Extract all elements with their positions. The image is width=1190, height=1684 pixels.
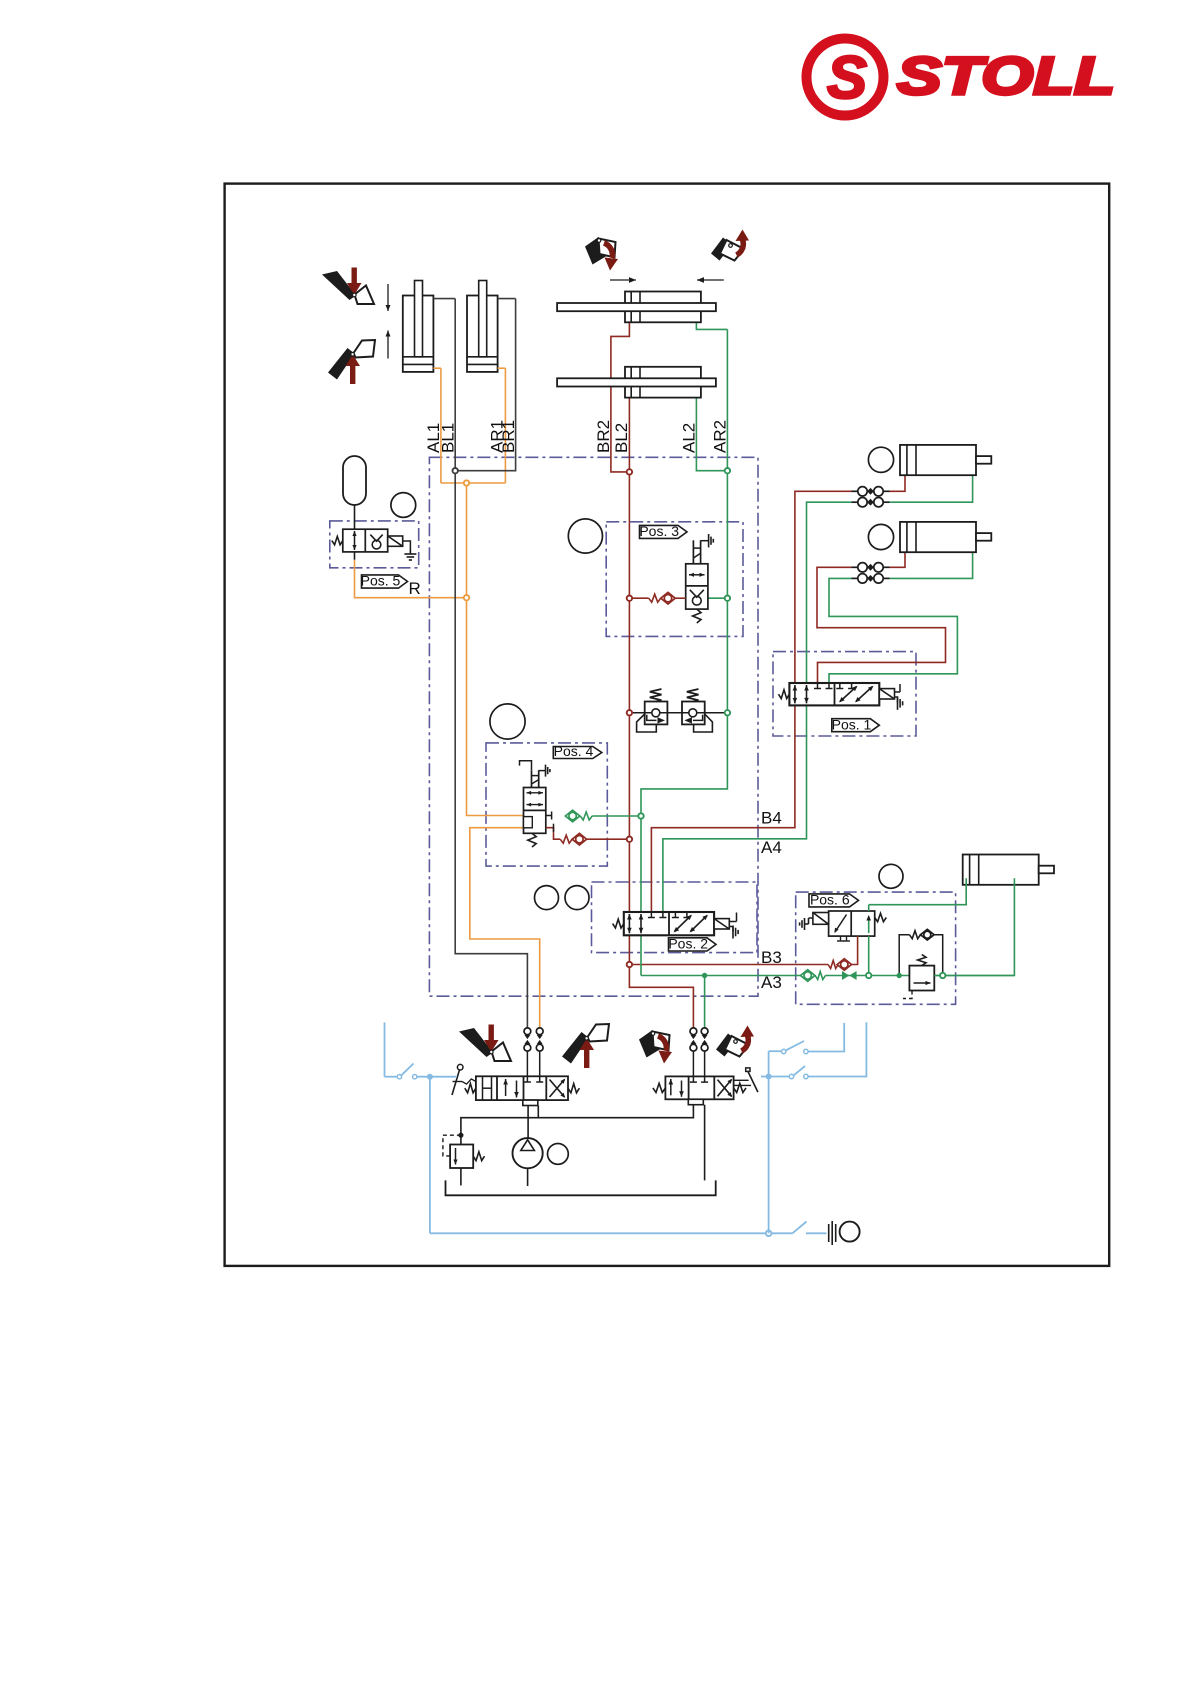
valve Pos.5 check symbol [372, 540, 381, 549]
valve Pos.5 line to accumulator [354, 552, 356, 560]
pilot switch S4 and power [771, 1232, 792, 1234]
valve V1 couplers [526, 1051, 528, 1077]
flag Pos. 3 [640, 525, 688, 538]
pilot switch S2 (upper) [769, 1050, 781, 1052]
node green bypass [897, 973, 902, 978]
wire green S-path lower tilt cylinder to Pos.1 [890, 552, 973, 578]
wire cross-line relief pair [633, 712, 727, 714]
valve V2 bottom notch [688, 1099, 703, 1104]
cylinder C2 port stubs [498, 298, 516, 300]
relief valve pilot dashes [443, 1135, 461, 1156]
svg-text:Pos. 3: Pos. 3 [639, 523, 679, 539]
valve V2 arrows section [670, 1079, 672, 1095]
node green Pos.4 check [638, 813, 643, 818]
check valve with spring red Pos.3 [649, 594, 661, 602]
pilot junction bottom right [766, 1231, 772, 1237]
wire series line to V2 [461, 1105, 694, 1145]
arrow retract (points right) [610, 279, 636, 281]
icon bucket dump (valve V2) [639, 1030, 672, 1064]
cylinder implement C5 [900, 445, 976, 475]
wire green reducing valve output [934, 975, 1014, 977]
cylinder implement C6 [900, 522, 976, 552]
wire AL2 green [696, 398, 727, 471]
balloon circle Pos.3 [568, 519, 602, 553]
dashed box central manifold [429, 457, 758, 996]
wire green coupler to tilt cylinder 3 [890, 475, 973, 502]
dashed box Pos. 5 [330, 521, 419, 568]
valve V1 springs [465, 1084, 476, 1093]
check valve with spring red Pos.4 [560, 835, 572, 843]
node green A3 drop [702, 973, 707, 978]
valve Pos.1 cross arrows [840, 687, 873, 702]
valve Pos.1 ground [898, 697, 903, 710]
svg-text:A4: A4 [761, 838, 782, 857]
wire BL1 gray vertical [455, 299, 527, 1028]
valve Pos.6 solenoid [813, 913, 829, 925]
node green reducing valve out [940, 973, 945, 978]
node green A3 Pos.6 riser [866, 973, 871, 978]
valve Pos.4 arrows [527, 792, 544, 794]
pilot wire left drop [429, 1077, 431, 1234]
wire green through Pos.6 valve [868, 936, 870, 975]
node red Pos.3 [627, 596, 632, 601]
node orange AL1/AR1 [464, 480, 469, 485]
arrow extend (points left) [697, 279, 724, 281]
wire orange drop to Pos.5 node [466, 483, 468, 598]
valve Pos.4 body [524, 788, 546, 834]
tank [446, 1180, 716, 1195]
cylinder 3rd function C7 [963, 855, 1039, 885]
pilot bottom bus [430, 1232, 769, 1234]
wire orange Pos.4 port B to left control valve [470, 828, 540, 1028]
relief valve spring [473, 1152, 484, 1161]
bypass check over reducing valve [899, 935, 909, 976]
wire A3 green horizontal [641, 975, 800, 977]
svg-text:AR2: AR2 [711, 420, 730, 453]
pressure reducing valve Pos.6 [909, 966, 934, 991]
valve V2 cross section [718, 1080, 732, 1097]
svg-text:B3: B3 [761, 948, 782, 967]
wire B4 red Pos.2 to Pos.1 [651, 683, 795, 912]
pilot wire right riser [768, 1051, 770, 1233]
svg-text:B4: B4 [761, 809, 782, 828]
pilot junction right [766, 1074, 772, 1080]
valve V1 float section symbols [482, 1076, 484, 1100]
svg-text:Pos. 1: Pos. 1 [832, 716, 872, 732]
dashed box Pos. 2 [592, 882, 758, 953]
quick coupler K1 [852, 490, 859, 492]
relief valve RV2 (right) [694, 714, 713, 732]
valve Pos.1 passthrough arrows [794, 685, 796, 703]
dashed box Pos. 1 [773, 652, 916, 736]
valve V1 center ports [526, 1076, 528, 1082]
valve Pos.4 solenoid [531, 770, 533, 787]
valve V2 center ports [692, 1076, 694, 1082]
flag Pos. 2 [669, 938, 717, 951]
svg-text:BL1: BL1 [438, 423, 457, 453]
wire green through Pos.1 up to coupler [807, 502, 852, 705]
pilot wire left riser [384, 1022, 386, 1076]
valve Pos.5 flow arrows [354, 531, 356, 550]
reducing valve spring [918, 955, 926, 966]
valve Pos.2 solenoid [714, 919, 729, 929]
icon boom lower (valve V1) [459, 1025, 511, 1062]
valve Pos.3 body [686, 564, 708, 609]
flag Pos. 5 [362, 575, 408, 588]
indicator lamp circle [840, 1222, 860, 1242]
icon bucket curl (top) [711, 230, 749, 261]
valve Pos.6 spring [875, 913, 887, 921]
svg-text:Pos. 5: Pos. 5 [361, 573, 401, 589]
valve Pos.3 arrow [689, 574, 705, 576]
wire T line V1 to series [537, 1106, 539, 1118]
balloon circles Pos.2 [535, 886, 559, 910]
svg-text:R: R [409, 579, 421, 598]
wire BL2 red main vertical [628, 398, 630, 965]
valve Pos.4 spring bottom [528, 833, 536, 847]
check valve with spring green Pos.6 (A3) [801, 970, 815, 982]
svg-text:BL2: BL2 [612, 423, 631, 453]
svg-text:AL2: AL2 [680, 423, 699, 453]
node red relief pair [627, 710, 632, 715]
wire AR2 green main vertical [641, 329, 727, 975]
dashed box Pos. 6 [796, 892, 956, 1004]
wire P line V1 [527, 1106, 529, 1139]
svg-text:Pos. 6: Pos. 6 [810, 892, 850, 908]
valve V2 couplers [692, 1051, 694, 1077]
valve Pos.3 solenoid [692, 540, 694, 564]
wire green C7 right port [934, 878, 1014, 975]
valve Pos.4 ground [546, 765, 550, 777]
relief valve RV1 (left) [637, 714, 657, 732]
icon boom raise (top left) [328, 340, 375, 384]
node red Pos.4 check [627, 837, 632, 842]
wire B3 red horizontal to Pos.6 [629, 964, 828, 966]
flag Pos. 1 [832, 719, 880, 732]
valve Pos.6 bottom stubs [840, 936, 842, 941]
valve Pos.3 check [692, 596, 701, 605]
valve Pos.6 body [829, 911, 875, 936]
wire AL1 orange vertical [440, 368, 442, 483]
valve Pos.2 spring [613, 919, 624, 928]
svg-text:A3: A3 [761, 973, 782, 992]
valve Pos.2 ground [733, 926, 738, 939]
valve Pos.4 lower detail [524, 817, 533, 828]
flag Pos. 4 [553, 747, 602, 759]
svg-text:Pos. 4: Pos. 4 [554, 743, 594, 759]
valve Pos.2 cross arrows [675, 916, 708, 932]
pilot switch S3 (lower) [771, 1076, 789, 1078]
arrow raise (left of C1) [387, 331, 389, 359]
valve Pos.3 spring bottom [693, 609, 701, 623]
wire red coupler to tilt cylinder 3 [890, 475, 906, 491]
balloon circle Pos.4 [490, 704, 525, 739]
valve V2 springs [653, 1083, 666, 1092]
node orange Pos.5 R [464, 595, 469, 600]
pump P1 [513, 1138, 543, 1168]
svg-text:BR1: BR1 [499, 420, 518, 453]
valve Pos.2 port stubs inside [650, 912, 652, 918]
balloon circle C6 [868, 524, 893, 549]
valve Pos.4 port stubs right [546, 815, 552, 817]
valve Pos.1 body [789, 683, 879, 705]
wire red S-path lower tilt cylinder to Pos.1 [890, 552, 906, 567]
valve V1 lever [457, 1064, 463, 1070]
wire T line V2 to tank [704, 1105, 706, 1181]
balloon circle Pos.6 [879, 864, 903, 888]
valve Pos.1 solenoid [879, 689, 894, 699]
cylinder tilt C4 (lower) [625, 367, 701, 398]
relief valve main [450, 1145, 473, 1169]
node green relief pair [725, 710, 730, 715]
reducing valve pilot dashes [903, 991, 912, 999]
valve V2 lever [746, 1068, 750, 1072]
wire green Pos.3 branch [708, 597, 728, 599]
throttle (bowtie) A3 [842, 971, 849, 980]
valve main V1 (lift, 4 sections) [476, 1076, 568, 1100]
cylinder tilt C3 (upper) [625, 292, 701, 323]
wire A4 green Pos.2 to Pos.1 [663, 683, 807, 912]
wire orange from Pos.5 R port [355, 560, 467, 598]
svg-text:S: S [827, 44, 867, 111]
STOLL logo [807, 39, 1116, 116]
dashed box Pos. 4 [486, 743, 607, 866]
icon bucket curl (valve V2) [716, 1026, 754, 1057]
valve Pos.5 ground [404, 549, 416, 560]
valve Pos.5 body [343, 529, 388, 552]
wire orange jog AL1-AR1 [441, 482, 506, 484]
pump suction [527, 1168, 529, 1186]
wire green C7 left port [869, 878, 967, 905]
wire AR2 green jog from C3 [696, 322, 727, 329]
quick coupler K3 [852, 566, 859, 568]
wire A3 junction to reducing valve [869, 975, 910, 977]
wire B3 red to right control valve [629, 965, 693, 1029]
node gray BL1/BR1 [453, 468, 458, 473]
wire green Pos.4 check branch [592, 815, 641, 817]
balloon circle C5 [868, 447, 893, 472]
valve Pos.5 solenoid [388, 536, 403, 546]
accumulator Pos.5 [343, 456, 366, 505]
valve main V2 (tilt, 3 sections) [665, 1076, 733, 1099]
node red BR2/BL2 [627, 469, 632, 474]
wire BR1 gray [455, 299, 515, 471]
relief to tank [460, 1168, 462, 1185]
wire AR1 orange vertical [504, 368, 506, 483]
wire A3 green drop to right control valve [704, 976, 706, 1029]
valve V1 cross section [550, 1080, 565, 1098]
node red B3 [627, 962, 632, 967]
wire red Pos.4 check branch [587, 838, 630, 840]
cylinder C1 port stubs [433, 298, 455, 300]
pilot junction left [427, 1074, 433, 1080]
flag Pos. 6 [809, 894, 859, 907]
valve V1 arrows section [505, 1079, 507, 1096]
valve Pos.5 spring [332, 536, 343, 544]
border frame [225, 184, 1110, 1266]
valve Pos.6 blocked arrow [835, 915, 847, 933]
valve Pos.4 pilot line [520, 761, 532, 771]
svg-text:STOLL: STOLL [897, 47, 1115, 106]
valve Pos.2 body [624, 912, 714, 935]
pilot switch S1 [385, 1076, 397, 1078]
valve Pos.3 ground [709, 534, 714, 547]
arrow lower (left of C1) [387, 284, 389, 311]
valve V1 bottom notch [523, 1100, 538, 1105]
wire red Pos.3 branch [629, 597, 648, 599]
node green AL2/AR2 [725, 468, 730, 473]
svg-text:Pos. 2: Pos. 2 [668, 936, 708, 952]
valve Pos.2 passthrough arrows [628, 914, 630, 933]
cylinder lift right C2 [467, 296, 498, 372]
icon boom raise (valve V1) [562, 1024, 609, 1068]
valve Pos.1 port stubs inside [817, 683, 819, 689]
check valve with spring red Pos.6 (B3) [828, 961, 838, 969]
cylinder lift left C1 [403, 296, 434, 372]
wire red through Pos.1 up to coupler [795, 491, 852, 705]
dashed box Pos. 3 [606, 522, 743, 637]
wire BR2 red [611, 322, 630, 472]
check valve with spring green Pos.4 [565, 810, 579, 822]
balloon circle Pos.5 [391, 493, 416, 518]
icon bucket dump (top) [585, 237, 618, 271]
svg-text:BR2: BR2 [594, 420, 613, 453]
node green Pos.3 [725, 596, 730, 601]
junction relief tee [458, 1133, 463, 1138]
quick coupler K4 [852, 577, 859, 579]
quick coupler K2 [852, 501, 859, 503]
wire red Pos.6 valve to check [851, 936, 858, 964]
pump shaft circle [548, 1144, 569, 1165]
icon boom lower (top left) [322, 268, 374, 305]
valve Pos.6 ground [800, 918, 809, 930]
accumulator stem [354, 505, 356, 529]
valve Pos.1 spring [779, 690, 790, 699]
wire orange drop to Pos.4 port A [467, 598, 524, 816]
